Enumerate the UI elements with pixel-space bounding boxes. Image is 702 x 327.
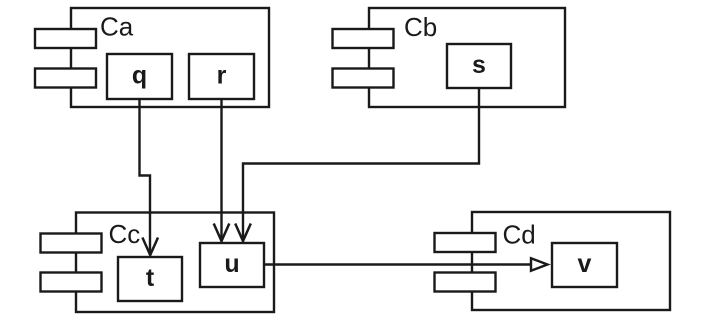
component Cb body xyxy=(369,8,565,107)
component Ca body xyxy=(71,8,269,107)
component Cb tab 2 xyxy=(333,69,394,88)
svg-text:Cd: Cd xyxy=(503,220,536,250)
component Ca tab 1 xyxy=(35,29,96,48)
svg-text:Cc: Cc xyxy=(109,219,141,249)
port u box xyxy=(200,243,264,287)
component Cb tab 1 xyxy=(333,29,394,48)
port r box xyxy=(189,54,254,99)
port q box xyxy=(107,54,172,99)
svg-text:t: t xyxy=(146,264,155,292)
wire q to t xyxy=(140,99,151,255)
component Cd tab 1 xyxy=(435,233,496,252)
svg-text:q: q xyxy=(132,62,147,90)
component Cd body xyxy=(472,212,670,310)
port t box xyxy=(118,257,182,301)
component Ca tab 2 xyxy=(35,69,96,88)
svg-text:Ca: Ca xyxy=(100,12,134,42)
arrowhead from r into u xyxy=(214,224,230,242)
svg-text:s: s xyxy=(472,51,486,79)
port s box xyxy=(447,44,511,88)
wire r to u xyxy=(220,99,222,242)
arrowhead from s into u xyxy=(235,224,251,242)
port v box xyxy=(552,243,617,287)
svg-text:Cb: Cb xyxy=(404,12,437,42)
component Cc tab 2 xyxy=(41,273,102,292)
wire u to v xyxy=(264,263,531,265)
hollow arrowhead into v xyxy=(531,258,548,271)
wire s to u xyxy=(243,88,479,242)
component Cc body xyxy=(76,213,274,313)
component Cc tab 1 xyxy=(41,234,102,253)
svg-text:r: r xyxy=(217,62,227,90)
svg-text:v: v xyxy=(578,250,592,278)
arrowhead into t xyxy=(142,238,158,256)
svg-text:u: u xyxy=(224,250,239,278)
component Cd tab 2 xyxy=(435,273,496,292)
